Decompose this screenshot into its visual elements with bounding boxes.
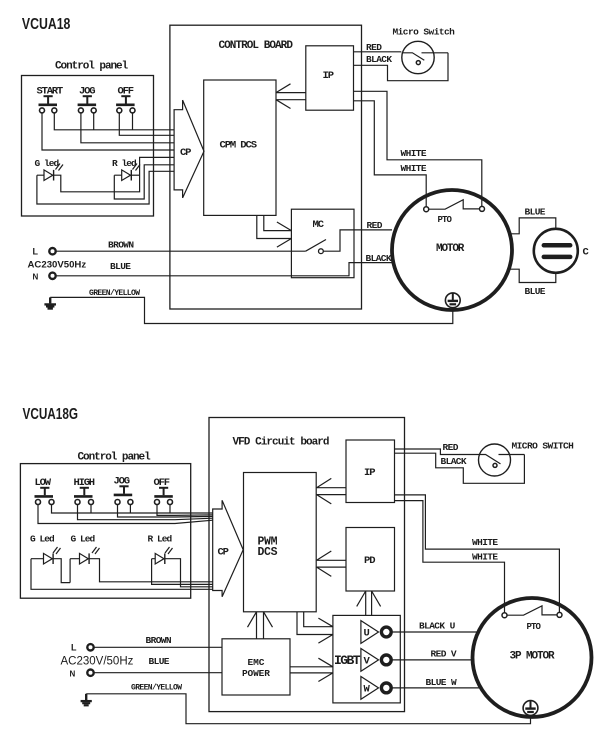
wire MC switch to motor RED bbox=[323, 230, 392, 251]
wire EMC to PWM left with arrow bbox=[248, 612, 257, 639]
R Led emission arrows bbox=[165, 547, 173, 554]
wire JOG-R tap bbox=[93, 113, 95, 130]
micro switch circle bottom bbox=[479, 444, 511, 476]
G Led 2 anode wire bbox=[70, 559, 79, 583]
control panel box bbox=[22, 76, 154, 217]
wire IP to CPM upper with arrow bbox=[276, 84, 306, 93]
svg-text:WHITE: WHITE bbox=[472, 552, 498, 563]
svg-text:RED: RED bbox=[443, 442, 459, 453]
svg-text:BROWN: BROWN bbox=[146, 635, 172, 646]
svg-text:Micro Switch: Micro Switch bbox=[393, 27, 456, 38]
svg-text:VFD Circuit board: VFD Circuit board bbox=[233, 437, 329, 449]
G Led 1 diode bbox=[44, 553, 53, 564]
wire JOG-R tap bbox=[129, 505, 131, 514]
motor earth symbol bbox=[445, 293, 460, 308]
control panel box bottom bbox=[20, 464, 190, 599]
wire common row1 START-R JOG-R OFF-R to CP bbox=[54, 113, 174, 130]
wire PWM to IGBT upper with arrow bbox=[304, 612, 333, 627]
svg-text:PTO: PTO bbox=[438, 215, 453, 225]
svg-text:WHITE: WHITE bbox=[472, 537, 498, 548]
svg-text:PD: PD bbox=[364, 555, 375, 567]
svg-text:3P MOTOR: 3P MOTOR bbox=[510, 651, 556, 663]
wire BROWN L to MC bbox=[56, 250, 306, 252]
svg-text:CP: CP bbox=[218, 547, 229, 559]
G led cathode wire to CP row5 bbox=[54, 157, 175, 191]
svg-text:BROWN: BROWN bbox=[108, 240, 134, 251]
wire N BLUE through MC to motor BLACK bbox=[56, 263, 392, 276]
svg-text:Control panel: Control panel bbox=[78, 452, 152, 464]
svg-text:G led: G led bbox=[35, 158, 60, 169]
VFD circuit board box bbox=[209, 418, 405, 712]
control board box bbox=[170, 25, 362, 309]
svg-text:RED: RED bbox=[367, 220, 383, 231]
svg-text:AC230V/50Hz: AC230V/50Hz bbox=[61, 656, 134, 668]
svg-text:CPM DCS: CPM DCS bbox=[220, 140, 257, 152]
MC box bbox=[291, 209, 354, 278]
svg-text:C: C bbox=[583, 247, 590, 259]
G Led 2 diode bbox=[80, 553, 89, 564]
svg-text:Control panel: Control panel bbox=[55, 61, 129, 73]
IGBT driver U bbox=[361, 621, 379, 644]
svg-text:WHITE: WHITE bbox=[401, 163, 427, 174]
PTO switch bottom bbox=[502, 613, 507, 618]
wire IGBT to PD right with arrow bbox=[372, 591, 381, 615]
svg-text:RED V: RED V bbox=[431, 649, 457, 660]
IGBT box bbox=[333, 615, 400, 703]
IGBT driver W bbox=[361, 677, 379, 700]
wire row5 LOW-L to CP bbox=[38, 505, 213, 524]
svg-text:L: L bbox=[71, 643, 77, 653]
wire CPM to MC lower with arrow bbox=[257, 215, 292, 247]
svg-text:MOTOR: MOTOR bbox=[436, 243, 465, 255]
wire GREEN/YELLOW to motor earth bbox=[50, 297, 453, 323]
PD box bbox=[346, 528, 395, 592]
IGBT driver V bbox=[361, 649, 379, 672]
svg-text:BLACK: BLACK bbox=[441, 456, 467, 467]
connector CP bbox=[174, 100, 204, 198]
svg-text:AC230V50Hz: AC230V50Hz bbox=[28, 260, 87, 271]
svg-text:BLACK: BLACK bbox=[366, 54, 392, 65]
wire PWM to IGBT lower with arrow bbox=[297, 612, 333, 643]
wire RED IP to micro switch bbox=[354, 51, 402, 53]
PWM DCS box bbox=[244, 473, 317, 612]
motor earth symbol bottom bbox=[523, 701, 538, 716]
svg-text:IP: IP bbox=[323, 70, 334, 82]
G led diode bbox=[44, 170, 53, 181]
capacitor C bbox=[534, 229, 578, 273]
svg-text:BLUE W: BLUE W bbox=[426, 677, 458, 688]
3P motor circle bbox=[473, 598, 592, 717]
svg-text:BLUE: BLUE bbox=[525, 286, 546, 297]
svg-text:VCUA18: VCUA18 bbox=[22, 16, 71, 33]
wire row4 HIGH-L to CP bbox=[78, 505, 213, 520]
wire BLACK U to motor bbox=[391, 631, 479, 633]
wire HIGH-R tap bbox=[90, 505, 92, 514]
button HIGH bbox=[74, 477, 95, 505]
svg-text:DCS: DCS bbox=[258, 546, 278, 559]
G Led 1 cathode wire to G Led 2 anode bbox=[53, 559, 70, 583]
motor circle bbox=[392, 190, 512, 310]
svg-text:R Led: R Led bbox=[148, 534, 173, 545]
svg-text:BLUE: BLUE bbox=[525, 207, 546, 218]
button JOG bottom bbox=[114, 476, 133, 505]
wire row4 START-L to CP bbox=[42, 113, 174, 150]
button OFF bbox=[116, 86, 135, 113]
wire row3 JOG-L to CP bbox=[81, 113, 174, 143]
svg-text:N: N bbox=[70, 670, 76, 679]
svg-text:N: N bbox=[33, 273, 39, 282]
svg-text:L: L bbox=[33, 247, 39, 257]
micro switch contacts and blade bbox=[402, 53, 448, 61]
button START bbox=[37, 86, 63, 113]
R Led cathode wire to CP bbox=[165, 559, 213, 587]
R led diode bbox=[122, 170, 131, 181]
svg-text:EMC: EMC bbox=[248, 657, 265, 668]
svg-text:VCUA18G: VCUA18G bbox=[23, 406, 79, 423]
wire BLACK IP to micro switch bottom bbox=[395, 453, 525, 483]
wire IGBT to PD left with arrow bbox=[357, 591, 366, 615]
wire EMC to IGBT upper with arrow bbox=[290, 658, 333, 667]
G Led 1 anode wire to CP bbox=[31, 559, 213, 590]
ground symbol left bbox=[49, 297, 51, 303]
terminal L bbox=[49, 248, 55, 254]
svg-text:PTO: PTO bbox=[527, 622, 542, 632]
R led anode wire to CP row6 bbox=[114, 165, 174, 199]
wire EMC to PWM right with arrow bbox=[264, 612, 273, 639]
wire WHITE lower IP to PTO left bottom bbox=[395, 501, 505, 613]
wire BLACK IP to micro switch bbox=[354, 53, 449, 81]
svg-text:R led: R led bbox=[112, 158, 137, 169]
svg-text:G Led: G Led bbox=[71, 534, 96, 545]
wire OFF-R tap bbox=[132, 113, 134, 130]
wire WHITE lower IP to PTO left bbox=[354, 101, 427, 207]
svg-text:IP: IP bbox=[364, 467, 375, 479]
svg-text:BLACK: BLACK bbox=[366, 253, 392, 264]
svg-text:MICRO SWITCH: MICRO SWITCH bbox=[512, 441, 575, 452]
ground symbol bottom left bbox=[85, 694, 87, 700]
wire IP to PWM upper with arrow bbox=[317, 478, 346, 487]
wire BLUE N to EMC bbox=[94, 672, 222, 674]
wire BLUE motor to capacitor bottom bbox=[509, 269, 556, 282]
G led anode wire to CP row7 bbox=[37, 171, 174, 204]
wire IP to CPM lower with arrow bbox=[276, 100, 306, 109]
wire IP to PWM lower with arrow bbox=[317, 495, 346, 504]
wire GREEN/YELLOW to motor earth bottom bbox=[86, 694, 530, 724]
wire BLUE W to motor bbox=[391, 687, 481, 689]
terminal N bbox=[49, 273, 55, 279]
wire BLUE motor to capacitor top bbox=[510, 218, 556, 234]
svg-text:BLUE: BLUE bbox=[149, 656, 170, 667]
wire WHITE upper IP to PTO right bbox=[354, 91, 482, 206]
svg-text:WHITE: WHITE bbox=[401, 148, 427, 159]
svg-text:BLACK U: BLACK U bbox=[419, 621, 456, 632]
svg-text:POWER: POWER bbox=[242, 668, 270, 679]
wire row3 JOG-L to CP bbox=[118, 505, 213, 518]
PTO switch bbox=[424, 207, 429, 212]
IP box bbox=[306, 46, 354, 110]
terminal N bottom bbox=[87, 670, 93, 676]
wire row2 OFF-L to CP bbox=[157, 505, 213, 516]
R led emission arrows bbox=[133, 164, 141, 171]
wire WHITE upper IP to PTO right bottom bbox=[395, 495, 560, 613]
wire OFF-R tap bbox=[169, 505, 171, 514]
wire RED IP to micro switch bottom bbox=[395, 449, 479, 455]
EMC POWER box bbox=[222, 639, 290, 695]
G Led 2 emission arrows bbox=[92, 547, 100, 554]
wire PD to PWM upper with arrow bbox=[317, 551, 346, 560]
svg-text:IGBT: IGBT bbox=[334, 653, 361, 668]
MC switch contact and blade bbox=[306, 240, 326, 252]
wire common row1 LOW-R HIGH-R JOG-R OFF-R to CP bbox=[52, 505, 213, 514]
svg-text:G Led: G Led bbox=[30, 534, 55, 545]
G Led 2 cathode wire to CP bbox=[89, 559, 213, 582]
terminal L bottom bbox=[87, 644, 93, 650]
svg-text:U: U bbox=[364, 628, 370, 640]
wire row2 OFF-L to CP bbox=[119, 113, 174, 135]
svg-text:GREEN/YELLOW: GREEN/YELLOW bbox=[89, 289, 140, 298]
wire RED V to motor bbox=[391, 659, 473, 661]
wire EMC to IGBT lower with arrow bbox=[290, 673, 333, 682]
wire BROWN L to EMC bbox=[94, 646, 222, 648]
svg-text:CP: CP bbox=[180, 147, 191, 159]
svg-text:GREEN/YELLOW: GREEN/YELLOW bbox=[131, 684, 182, 693]
R Led anode wire to CP bbox=[152, 559, 213, 585]
G led emission arrows bbox=[56, 164, 64, 171]
button JOG bbox=[78, 86, 97, 113]
CPM DCS box bbox=[204, 80, 276, 215]
button OFF bottom bbox=[154, 477, 173, 505]
micro switch circle bbox=[402, 41, 434, 73]
G Led 1 emission arrows bbox=[53, 547, 61, 554]
wire CPM to MC upper with arrow bbox=[264, 215, 292, 230]
connector CP bottom bbox=[213, 500, 244, 597]
micro switch contacts and blade bottom bbox=[478, 455, 524, 464]
svg-text:CONTROL BOARD: CONTROL BOARD bbox=[219, 40, 294, 52]
wire PD to PWM lower with arrow bbox=[317, 567, 346, 576]
R Led diode bbox=[155, 553, 164, 564]
svg-text:RED: RED bbox=[366, 42, 382, 53]
svg-text:BLUE: BLUE bbox=[110, 261, 131, 272]
svg-text:MC: MC bbox=[313, 219, 325, 231]
button LOW bbox=[35, 477, 55, 505]
IP box bottom bbox=[346, 440, 395, 503]
R led cathode wire tap bbox=[131, 174, 139, 176]
